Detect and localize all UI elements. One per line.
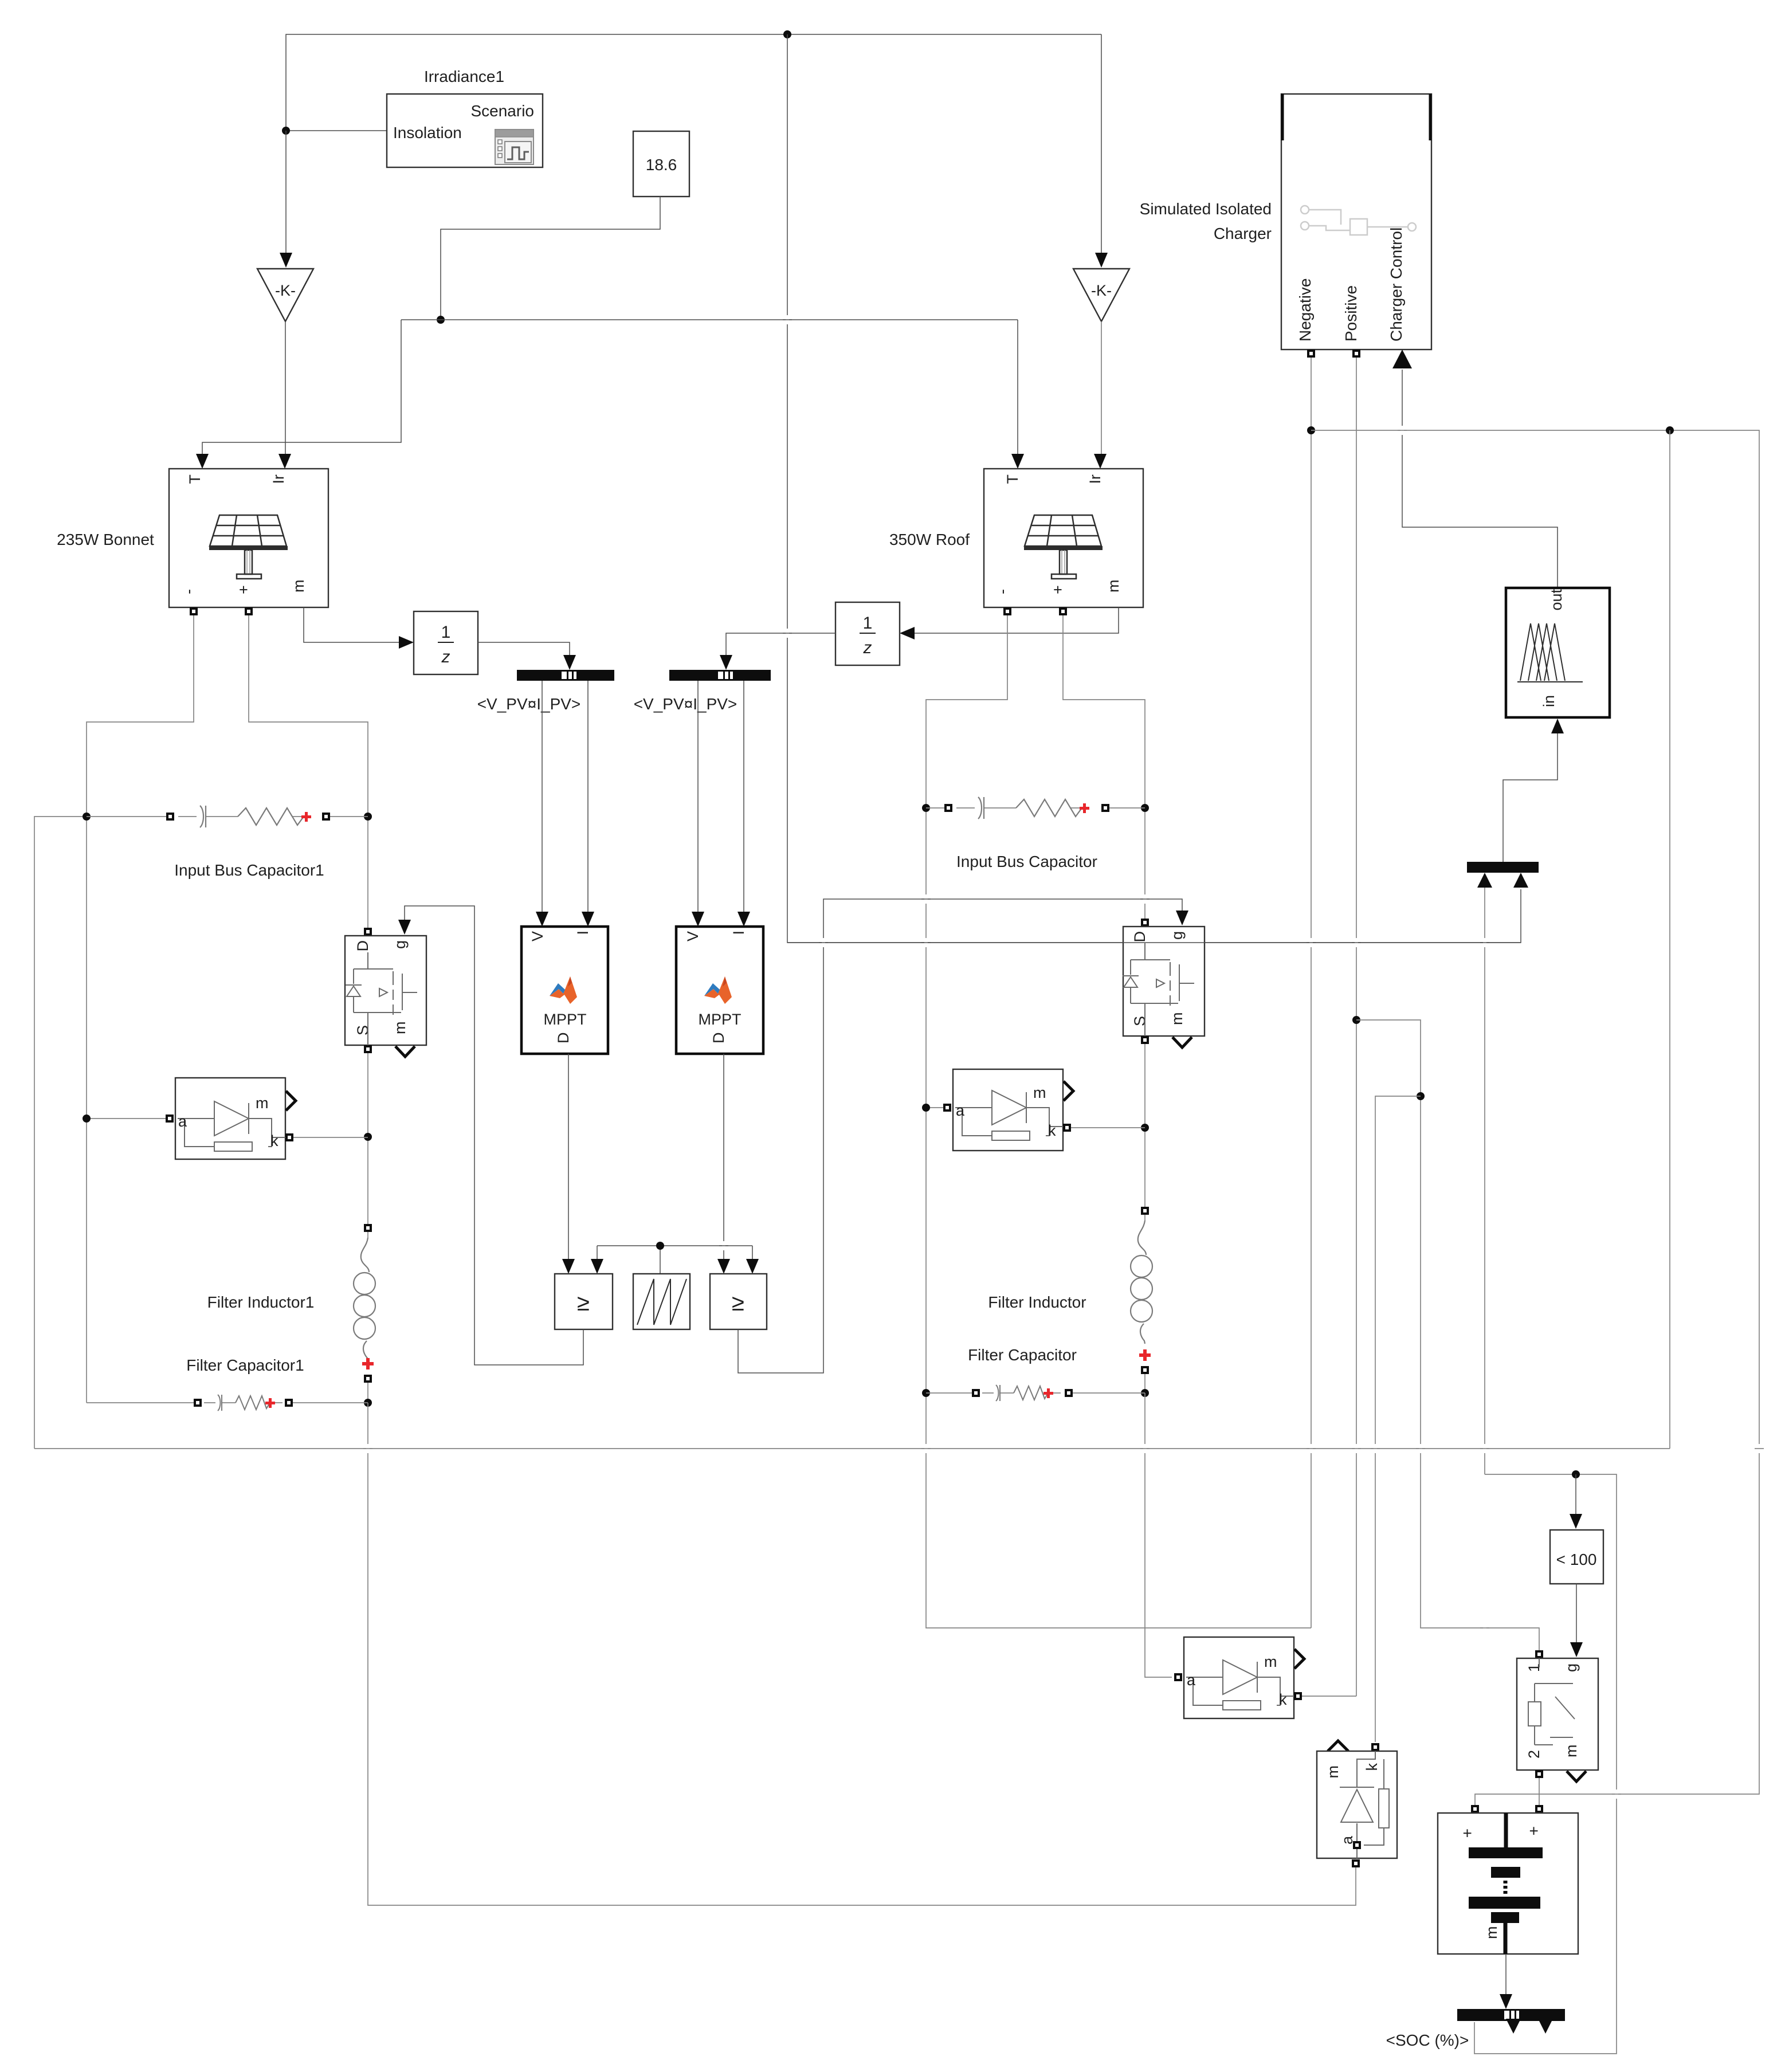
block fuzzy logic controller [1506, 588, 1610, 717]
svg-text:m: m [1483, 1926, 1500, 1940]
wire: gain2 output to right PV Ir [1101, 321, 1102, 455]
node: top bus junction [783, 30, 791, 38]
block unit delay 1/z (left) [414, 611, 478, 674]
wire: T bus horizontal [401, 319, 1018, 320]
wire: left PV plus rail down to MOSFET D [249, 615, 368, 932]
node: right diode cathode junction [1141, 1124, 1149, 1132]
block MPPT 1 (MATLAB function) [521, 927, 608, 1054]
node: Insolation junction [282, 127, 290, 135]
wire: Insolation output to gains (top bus) [286, 34, 1101, 131]
svg-text:m: m [290, 580, 307, 593]
svg-text:a: a [956, 1102, 965, 1119]
node: negative bus to bottom loop junction [1666, 426, 1674, 434]
svg-text:D: D [354, 940, 371, 952]
svg-text:k: k [1048, 1122, 1056, 1139]
svg-text:<V_PV¤I_PV>: <V_PV¤I_PV> [477, 695, 581, 713]
svg-text:-: - [180, 589, 197, 594]
svg-text:k: k [270, 1132, 278, 1149]
svg-text:Input Bus Capacitor1: Input Bus Capacitor1 [174, 861, 324, 879]
port - of 235W Bonnet [190, 607, 198, 615]
node: positive junction [1352, 1016, 1360, 1024]
svg-text:Positive: Positive [1342, 285, 1360, 342]
svg-text:Ir: Ir [1086, 474, 1104, 484]
wire: switch output 2 to battery plus [1539, 1778, 1540, 1805]
component Filter Inductor [988, 1207, 1152, 1374]
node: negative bus junction [1307, 426, 1315, 434]
node: positive branch junction [1417, 1092, 1425, 1100]
block Irradiance1 (Signal Builder "Scenario") [387, 68, 543, 167]
svg-text:≥: ≥ [577, 1290, 590, 1316]
wire: T bus to left PV T input [202, 320, 401, 455]
svg-text:I: I [574, 931, 591, 935]
svg-text:V: V [529, 931, 546, 941]
svg-text:Scenario: Scenario [470, 102, 534, 120]
svg-text:1: 1 [1525, 1663, 1543, 1672]
wire: top bus down to mux (Insolation to Mux1 input 2) [787, 34, 1521, 943]
svg-text:2: 2 [1525, 1750, 1543, 1759]
svg-text:-K-: -K- [1091, 282, 1112, 299]
node: left diode cathode junction [364, 1133, 372, 1141]
node: right output node left [922, 1389, 930, 1397]
node: left minus junction [83, 813, 91, 821]
component Filter Capacitor (series RC) [926, 1346, 1145, 1401]
port - of 350W Roof [1003, 607, 1011, 615]
svg-text:a: a [1187, 1671, 1196, 1689]
port + of 235W Bonnet [245, 607, 253, 615]
svg-text:D: D [710, 1033, 727, 1044]
wire: left PV minus rail down [87, 615, 194, 1403]
svg-text:Filter Capacitor1: Filter Capacitor1 [186, 1356, 304, 1374]
block sawtooth generator [633, 1274, 690, 1329]
svg-text:< 100: < 100 [1556, 1551, 1597, 1568]
svg-text:I: I [730, 931, 747, 935]
svg-text:m: m [1264, 1653, 1277, 1670]
svg-text:g: g [1168, 931, 1186, 940]
mux (SOC + insolation) [1467, 862, 1539, 888]
svg-text:m: m [1324, 1765, 1341, 1779]
block compare < 100 [1550, 1530, 1603, 1584]
svg-text:Simulated Isolated: Simulated Isolated [1140, 200, 1272, 218]
svg-text:g: g [1563, 1663, 1580, 1672]
wire: SOC feedback up to mux input 1 [1484, 888, 1485, 1474]
svg-text:out: out [1548, 589, 1565, 611]
svg-text:V: V [684, 931, 701, 941]
wire: 1/z right output to bus selector 2 [726, 633, 835, 656]
svg-text:Filter Capacitor: Filter Capacitor [968, 1346, 1077, 1364]
bus selector 1 (left) [517, 670, 614, 681]
block PV array 235W Bonnet [57, 469, 328, 607]
node: SOC junction to comparator [1572, 1470, 1580, 1478]
wire: sawtooth output bus to both relational operators [597, 1246, 752, 1274]
wire: left minus rail to outer loop (x60) [34, 817, 87, 1449]
svg-text:<SOC (%)>: <SOC (%)> [1386, 2031, 1469, 2049]
wire: right minus rail to diode2 anode [926, 1107, 944, 1108]
svg-text:Input Bus Capacitor: Input Bus Capacitor [956, 853, 1097, 870]
wire: charger Positive down [1356, 358, 1357, 1696]
node: right output node right [1141, 1389, 1149, 1397]
wire: SOC feedback line from selector [1474, 1474, 1617, 2054]
gain -K- 2 (right) [1073, 34, 1129, 321]
node: left plus junction [364, 813, 372, 821]
svg-text:Charger: Charger [1214, 225, 1272, 242]
wire: relational op 2 output to right MOSFET gate [738, 899, 1182, 1373]
svg-text:Ir: Ir [270, 474, 287, 484]
svg-text:m: m [256, 1094, 269, 1112]
svg-text:k: k [1279, 1691, 1287, 1708]
svg-text:Insolation: Insolation [393, 124, 462, 142]
port + of 350W Roof [1059, 607, 1067, 615]
svg-text:18.6: 18.6 [646, 156, 677, 174]
svg-text:in: in [1540, 695, 1558, 707]
wire: negative bus to right side [1311, 430, 1759, 1805]
wire crossing gaps [363, 315, 1764, 1799]
svg-text:<V_PV¤I_PV>: <V_PV¤I_PV> [634, 695, 737, 713]
svg-text:T: T [1004, 474, 1021, 484]
wire: SOC junction down to < 100 block [1575, 1474, 1576, 1514]
wire: bus selector 1 out I to MPPT1 [587, 681, 589, 913]
wire: diode3 k to positive rail [1302, 1696, 1356, 1697]
wire: bus selector 1 out V to MPPT1 [542, 681, 543, 913]
block diode 2 (right freewheel) [943, 1069, 1073, 1151]
svg-text:+: + [1458, 1828, 1476, 1838]
wire: inductor1 to filter cap node [367, 1383, 368, 1403]
wire: < 100 output to switch g [1576, 1584, 1577, 1643]
node: sawtooth output junction [656, 1242, 664, 1250]
svg-text:S: S [354, 1025, 371, 1035]
svg-text:m: m [1105, 580, 1122, 593]
component Input Bus Capacitor (series RC) [926, 797, 1145, 870]
block diode 1 (left freewheel) [166, 1078, 296, 1159]
svg-text:k: k [1363, 1763, 1380, 1771]
svg-text:-K-: -K- [275, 282, 296, 299]
svg-text:z: z [863, 638, 872, 657]
wire: right PV plus rail down to MOSFET D [1063, 615, 1145, 923]
wire: left minus rail to diode1 anode [87, 1118, 166, 1119]
node: junction on right minus rail [922, 1104, 930, 1112]
component Filter Inductor1 [207, 1224, 375, 1383]
block battery [1438, 1805, 1578, 1954]
node: junction on left minus rail [83, 1115, 91, 1123]
wire: right MOSFET S down to inductor [1144, 1044, 1145, 1211]
svg-text:m: m [1563, 1745, 1580, 1758]
wire: right output down to diode3 anode [1145, 1393, 1172, 1677]
block left MOSFET [345, 928, 426, 1057]
wire: right PV minus rail down [926, 615, 1311, 1628]
wire: 18.6 output to T inputs [441, 197, 660, 320]
node: left output node [364, 1399, 372, 1407]
block PV array 350W Roof [889, 469, 1143, 607]
component Input Bus Capacitor1 (series RC) [87, 806, 368, 879]
svg-text:MPPT: MPPT [543, 1011, 586, 1028]
component Filter Capacitor1 (series RC) [87, 1356, 368, 1411]
block diode 3 (battery blocking diode) [1174, 1637, 1304, 1718]
svg-text:m: m [1168, 1013, 1186, 1026]
svg-text:+: + [1049, 585, 1066, 594]
bus selector 2 (right) [669, 670, 771, 681]
node: right minus junction [922, 804, 930, 812]
block switch (charge switch) [1517, 1650, 1598, 1781]
wire: T bus to right PV T input [1017, 320, 1018, 455]
wire: insolation bus overlay segment [787, 942, 1521, 943]
svg-text:Filter Inductor: Filter Inductor [988, 1293, 1086, 1311]
svg-text:S: S [1131, 1016, 1148, 1026]
svg-text:1: 1 [863, 614, 873, 633]
wire: relational op 1 output to left MOSFET gate [405, 906, 583, 1365]
block relational operator 1 (>=) [555, 1274, 613, 1329]
svg-text:Charger Control: Charger Control [1387, 227, 1405, 342]
wire: bus selector 2 out I to MPPT2 [743, 681, 744, 913]
svg-text:+: + [235, 585, 252, 594]
wire: left MOSFET S down to inductor [367, 1053, 368, 1228]
svg-text:235W Bonnet: 235W Bonnet [57, 531, 154, 548]
wire: gain1 output to left PV Ir [285, 321, 286, 455]
svg-text:MPPT: MPPT [698, 1011, 741, 1028]
svg-text:+: + [1525, 1826, 1543, 1835]
svg-text:D: D [555, 1033, 572, 1044]
wire: positive branch to diode4 k [1375, 1096, 1421, 1742]
node: T bus junction [437, 316, 445, 324]
block MPPT 2 (MATLAB function) [676, 927, 763, 1054]
svg-text:Negative: Negative [1296, 278, 1314, 342]
wire: bus selector 2 out V to MPPT2 [697, 681, 699, 913]
wire: negative bus down to long bottom bus [1669, 430, 1670, 1449]
svg-text:z: z [441, 647, 450, 666]
svg-text:1: 1 [441, 623, 451, 642]
node: right plus junction [1141, 804, 1149, 812]
wire: mux output to fuzzy in [1503, 733, 1558, 862]
svg-text:≥: ≥ [732, 1290, 744, 1316]
svg-text:Irradiance1: Irradiance1 [424, 68, 504, 85]
block right MOSFET [1123, 919, 1205, 1047]
wire: MPPT2 D output to relational operator 2 [723, 1054, 724, 1259]
wire: fuzzy controller output to Charger Control [1402, 370, 1558, 588]
svg-text:D: D [1131, 931, 1148, 943]
wire: battery m to SOC bus selector [1505, 1954, 1507, 1994]
wire: right PV m to unit delay 1/z (right) [914, 607, 1119, 633]
wire: left output down to battery diode (long bottom path) [368, 1403, 1356, 1905]
svg-text:m: m [1033, 1084, 1046, 1101]
block Simulated Isolated Charger [1140, 94, 1431, 368]
svg-text:-: - [994, 589, 1011, 594]
svg-text:a: a [178, 1113, 187, 1130]
wire: 1/z left output to bus selector 1 [478, 642, 570, 656]
wire: inductor to filter cap node [1144, 1374, 1145, 1393]
gain -K- 1 (left) [257, 131, 313, 321]
wire: charger Negative down and across to right filter node [1311, 358, 1312, 1628]
svg-text:g: g [391, 940, 409, 949]
svg-text:T: T [186, 474, 203, 484]
wire: long bottom bus (negative return) [34, 1448, 1670, 1449]
wire: diode1 k to MOSFET S node [293, 1137, 368, 1138]
svg-text:Filter Inductor1: Filter Inductor1 [207, 1293, 315, 1311]
block diode 4 (vertical shunt diode) [1317, 1741, 1397, 1867]
block constant 18.6 [633, 131, 689, 197]
block relational operator 2 (>=) [710, 1274, 767, 1329]
wire: positive branch to switch input 1 [1356, 1020, 1539, 1650]
wire: MPPT1 D output to relational operator 1 [568, 1054, 569, 1259]
wire: left PV m to unit delay 1/z (left) [304, 607, 400, 642]
bus selector SOC [1457, 2009, 1565, 2034]
svg-text:m: m [391, 1022, 409, 1035]
svg-text:350W Roof: 350W Roof [889, 531, 970, 548]
wire: diode2 k to right MOSFET S node [1071, 1127, 1145, 1128]
block unit delay 1/z (right) [835, 602, 900, 665]
